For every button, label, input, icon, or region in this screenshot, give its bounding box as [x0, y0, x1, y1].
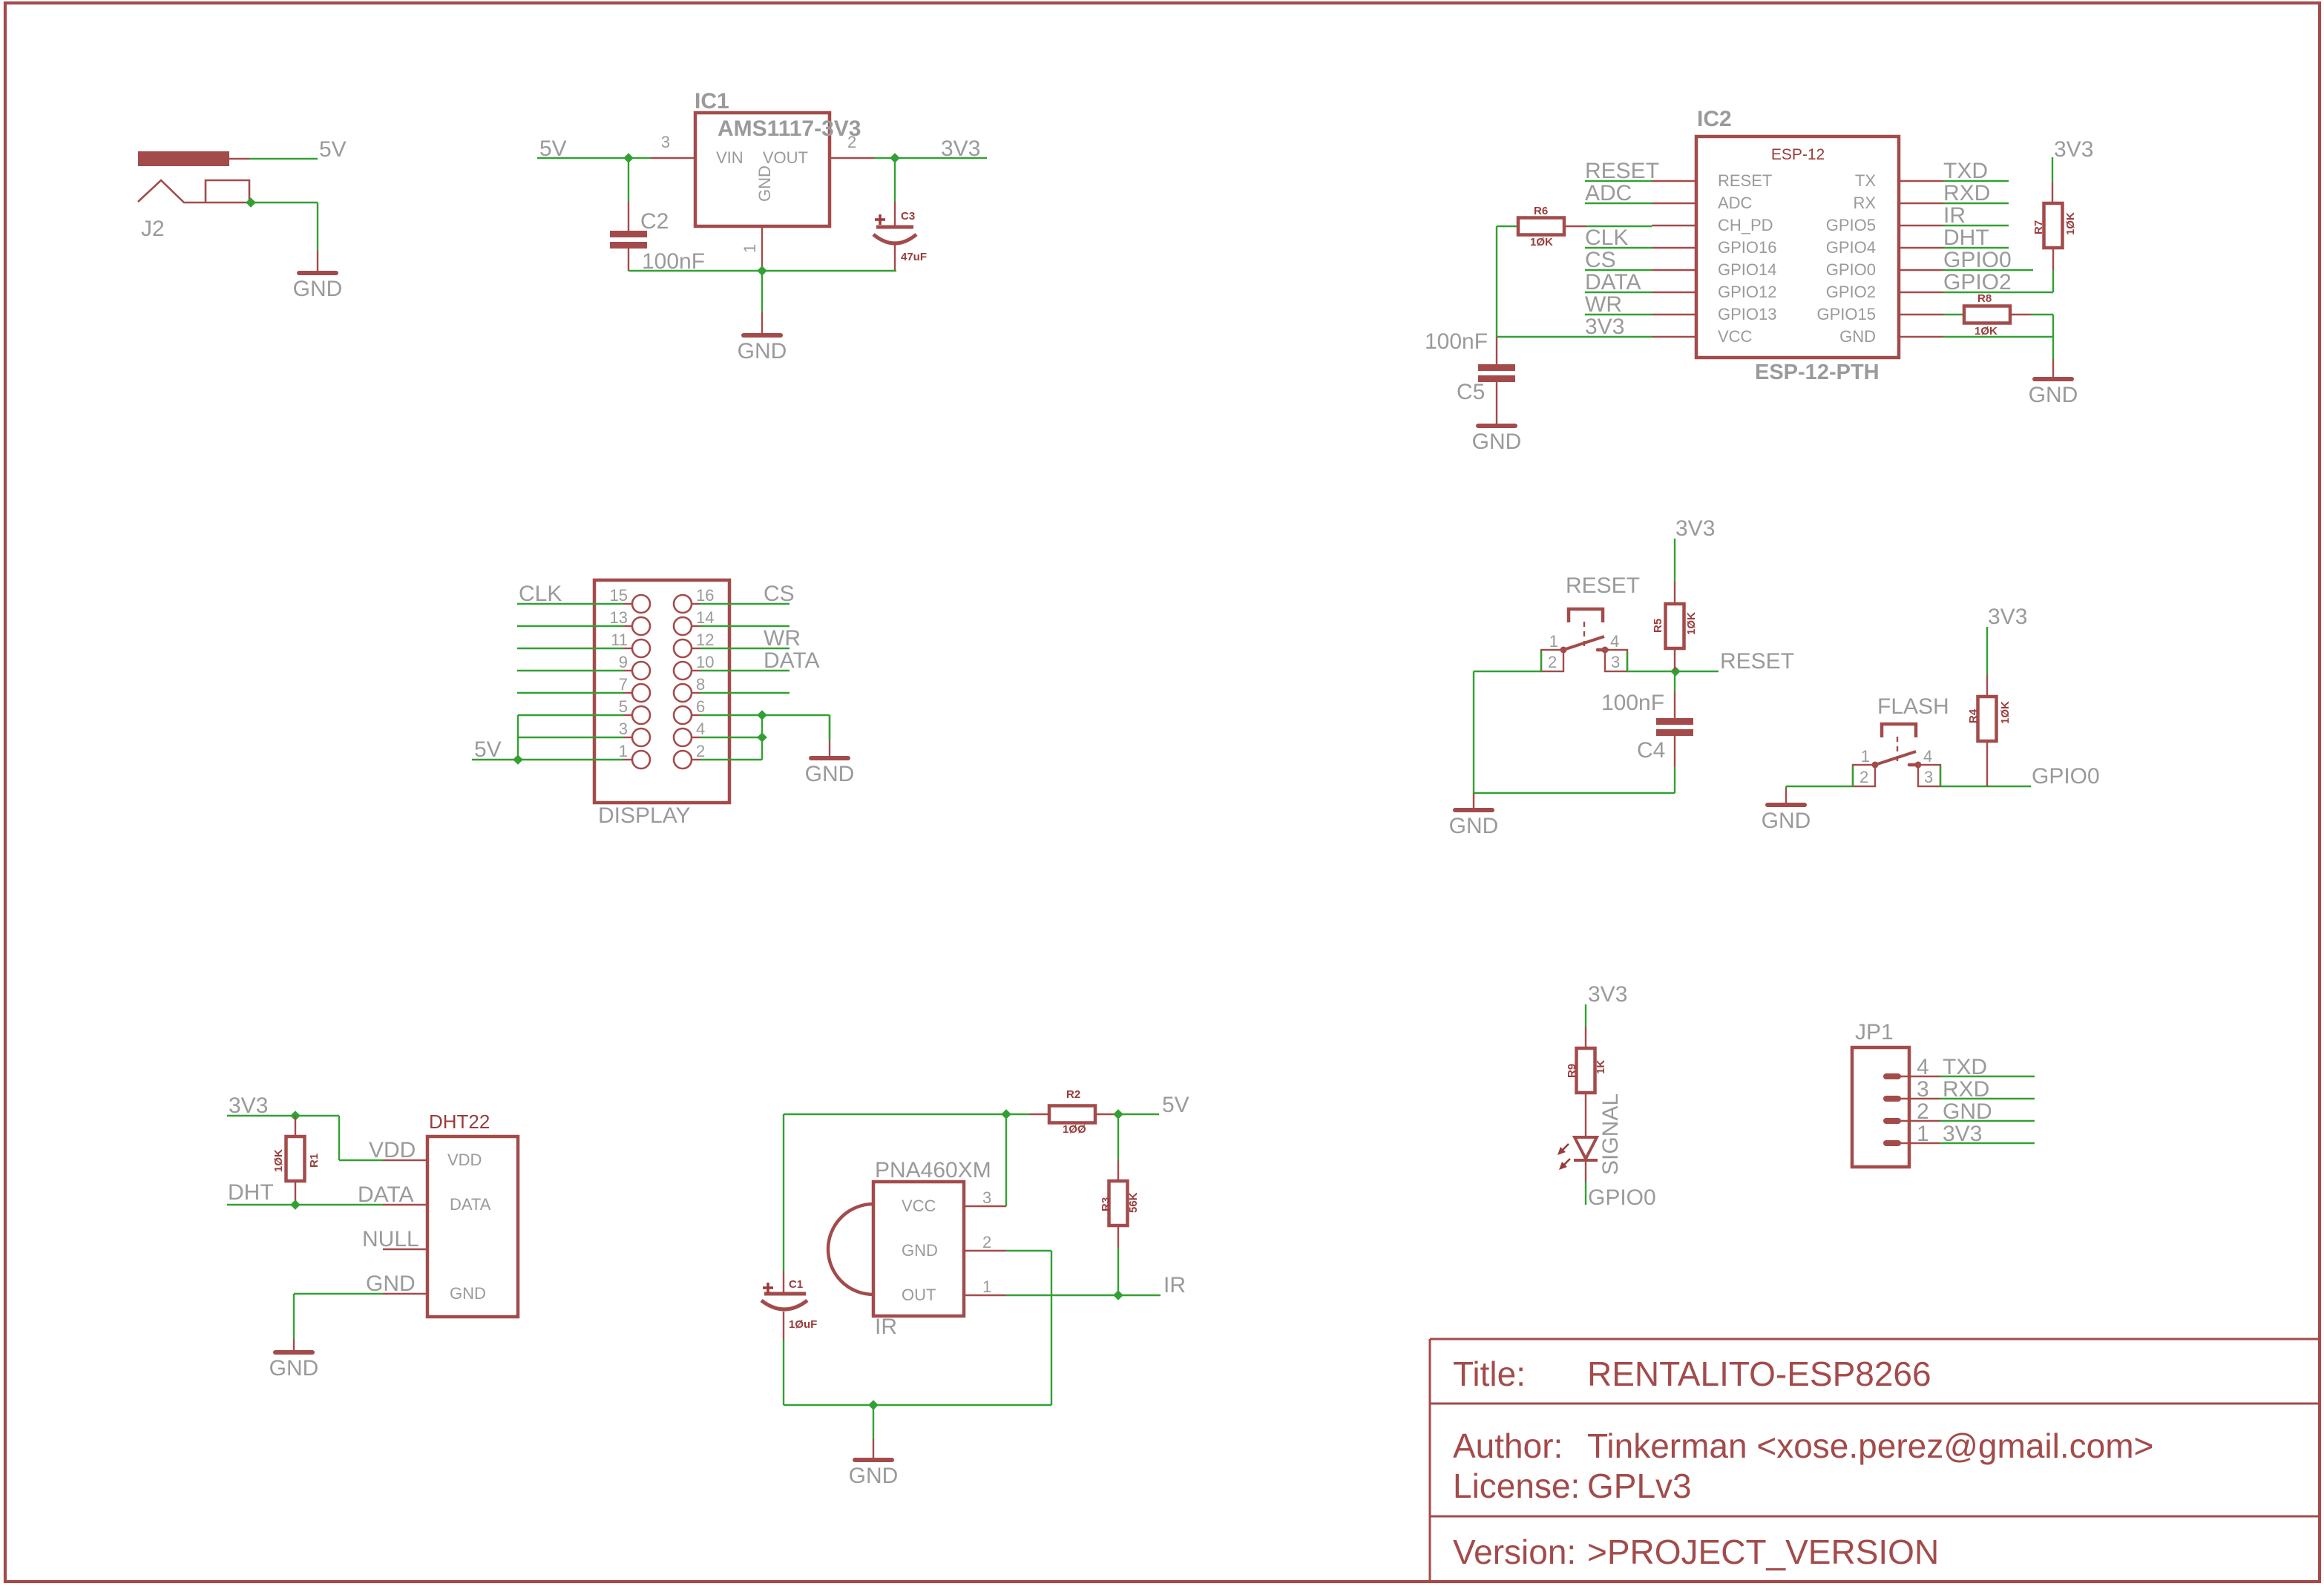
net GPIO0 [1943, 269, 2033, 271]
C4 bottom lead [1674, 736, 1675, 767]
LED emission arrow 1 [1560, 1144, 1569, 1153]
wire DHT22 ground [294, 1293, 383, 1294]
junction 3V3 / C3 [890, 153, 900, 163]
DISPLAY pad 3 [632, 728, 650, 746]
svg-text:3V3: 3V3 [1585, 315, 1624, 339]
svg-text:GPIO12: GPIO12 [1718, 283, 1776, 301]
svg-text:GND: GND [755, 165, 774, 202]
svg-text:GND: GND [1943, 1099, 1992, 1124]
svg-text:GPIO0: GPIO0 [2032, 764, 2100, 789]
resistor R3 [1117, 1114, 1119, 1159]
connector DISPLAY body [594, 580, 729, 803]
wire DHT data [227, 1204, 383, 1205]
svg-text:GPIO16: GPIO16 [1718, 238, 1776, 257]
svg-text:2: 2 [1859, 768, 1868, 786]
svg-text:TXD: TXD [1943, 159, 1988, 183]
DISPLAY pad 5 [632, 706, 650, 724]
svg-text:C1: C1 [789, 1278, 803, 1291]
svg-text:GND: GND [805, 762, 855, 786]
svg-text:RX: RX [1853, 194, 1876, 212]
IC1 pin 1 GND stub [761, 226, 763, 271]
C1 bottom lead [783, 1312, 784, 1340]
IC2 right pin TX [1899, 180, 1943, 182]
svg-text:8: 8 [696, 675, 705, 694]
RESET lever [1563, 636, 1604, 650]
wire from DISPLAY pin 12 [692, 648, 700, 649]
junction PNA ground [868, 1400, 879, 1410]
svg-text:OUT: OUT [902, 1286, 936, 1304]
svg-text:NULL: NULL [362, 1227, 419, 1251]
svg-text:9: 9 [619, 653, 628, 671]
svg-text:RESET: RESET [1718, 171, 1772, 190]
svg-text:4: 4 [1610, 632, 1619, 651]
svg-text:10: 10 [696, 653, 714, 671]
IC2 left pin CH_PD [1652, 225, 1696, 226]
svg-text:GND: GND [1472, 430, 1522, 454]
capacitor C4 plates [1656, 718, 1693, 725]
sensor DHT22 body [427, 1136, 518, 1317]
svg-text:16: 16 [696, 586, 714, 605]
wire PNA bottom rail [784, 1404, 1051, 1406]
wire to DISPLAY pin 3 [623, 737, 632, 738]
svg-text:11: 11 [611, 631, 628, 649]
svg-text:RESET: RESET [1566, 573, 1640, 598]
svg-text:4: 4 [696, 720, 705, 738]
net IR [1943, 225, 2009, 226]
svg-text:R2: R2 [1066, 1088, 1080, 1101]
IC2 left pin RESET [1652, 180, 1696, 182]
ground symbol DHT22 [293, 1339, 295, 1352]
svg-text:100nF: 100nF [1601, 691, 1664, 715]
DISPLAY pad 7 [632, 684, 650, 702]
net TXD [1943, 180, 2009, 182]
svg-text:RXD: RXD [1943, 1077, 1989, 1102]
svg-text:DATA: DATA [358, 1182, 414, 1207]
J2 5V pin [229, 158, 249, 159]
svg-text:R9: R9 [1566, 1064, 1578, 1078]
ground symbol RESET [1473, 793, 1474, 810]
svg-text:5: 5 [619, 697, 628, 716]
svg-text:CLK: CLK [519, 582, 562, 606]
RESET terminal box 3 [1605, 650, 1627, 671]
svg-text:>PROJECT_VERSION: >PROJECT_VERSION [1587, 1533, 1939, 1571]
svg-text:CS: CS [1585, 248, 1616, 272]
DISPLAY pad 6 [674, 706, 692, 724]
svg-text:VOUT: VOUT [763, 148, 808, 167]
IC2 left pin GPIO16 [1652, 247, 1696, 249]
wire PNA gnd down [1006, 1250, 1051, 1251]
svg-text:GND: GND [902, 1241, 938, 1260]
svg-text:1: 1 [619, 742, 628, 760]
capacitor C3 leads [894, 158, 896, 202]
FLASH contact 4 [1915, 762, 1922, 769]
wire to DISPLAY pin 13 [623, 625, 632, 627]
junction RESET net [1670, 666, 1681, 677]
JP1 pad 4 [1883, 1073, 1901, 1079]
svg-text:GND: GND [1839, 327, 1876, 346]
svg-text:RXD: RXD [1943, 181, 1990, 205]
IC2 right pin GPIO2 [1899, 292, 1943, 293]
RESET terminal box 2 [1541, 650, 1563, 671]
svg-text:GPIO0: GPIO0 [1943, 248, 2012, 272]
wire 3V3 to VDD [338, 1116, 340, 1160]
svg-text:CS: CS [764, 582, 795, 606]
svg-text:ESP-12-PTH: ESP-12-PTH [1755, 361, 1880, 384]
resistor R9 [1585, 1027, 1586, 1048]
wire 5V from J2 [249, 158, 318, 159]
svg-text:C3: C3 [901, 210, 915, 223]
resistor R1 pull-up [295, 1116, 296, 1136]
wire from DISPLAY pin 14 [692, 625, 700, 627]
svg-text:AMS1117-3V3: AMS1117-3V3 [718, 116, 861, 141]
net RXD at JP1 [1940, 1098, 2035, 1099]
IR receiver dome [828, 1204, 873, 1294]
wire to DISPLAY pin 11 [623, 648, 632, 649]
net GPIO2 [1943, 292, 2053, 293]
svg-text:3V3: 3V3 [1988, 605, 2027, 629]
svg-text:VDD: VDD [369, 1138, 416, 1162]
svg-text:GND: GND [849, 1464, 899, 1488]
svg-text:1ØuF: 1ØuF [789, 1318, 817, 1331]
svg-text:DATA: DATA [764, 648, 820, 673]
IC2 left pin GPIO12 [1652, 292, 1696, 293]
net GND at JP1 [1940, 1120, 2035, 1122]
LED emission arrow 2 [1561, 1159, 1570, 1168]
svg-text:GND: GND [2029, 383, 2078, 407]
svg-text:DATA: DATA [450, 1195, 491, 1214]
DISPLAY pad 9 [632, 662, 650, 680]
capacitor C1 polarized plates [764, 1292, 806, 1296]
IR receiver body [873, 1182, 964, 1316]
DHT22 pin NULL [383, 1248, 427, 1250]
DHT22 pin VDD [383, 1159, 427, 1161]
regulator IC1 body [695, 113, 830, 226]
LED bottom lead [1585, 1160, 1586, 1182]
wire from DISPLAY pin 16 [692, 603, 700, 605]
svg-text:3V3: 3V3 [1943, 1122, 1982, 1146]
svg-text:1ØK: 1ØK [1999, 701, 2012, 724]
svg-text:C2: C2 [640, 209, 669, 234]
svg-text:1ØK: 1ØK [1530, 236, 1553, 249]
svg-text:Author:: Author: [1453, 1427, 1563, 1465]
FLASH terminal box 3 [1918, 765, 1940, 786]
svg-text:C5: C5 [1457, 380, 1485, 404]
IC1 pin 2 VOUT stub [830, 157, 874, 159]
ground symbol FLASH [1785, 786, 1787, 788]
svg-text:WR: WR [1585, 292, 1622, 317]
svg-text:1ØØ: 1ØØ [1063, 1123, 1086, 1136]
svg-text:1: 1 [1861, 747, 1870, 766]
svg-text:Version:: Version: [1453, 1533, 1576, 1571]
wire GPIO15 pulldown [2052, 315, 2054, 359]
IC2 left pin VCC [1652, 336, 1696, 338]
header JP1 body [1852, 1047, 1909, 1167]
svg-text:Title:: Title: [1453, 1355, 1526, 1393]
svg-text:DHT: DHT [1943, 226, 1989, 250]
capacitor C5 plates [1478, 364, 1515, 371]
svg-text:RENTALITO-ESP8266: RENTALITO-ESP8266 [1587, 1355, 1931, 1393]
FLASH contact 1 [1872, 762, 1879, 769]
svg-text:DHT22: DHT22 [429, 1111, 490, 1133]
svg-text:GPIO2: GPIO2 [1943, 270, 2012, 295]
svg-text:J2: J2 [141, 217, 165, 241]
junction 5V DISPLAY [513, 754, 523, 765]
svg-text:R8: R8 [1977, 292, 1992, 305]
capacitor C3 polarized plates [876, 226, 913, 229]
C1 plus sign [763, 1286, 773, 1289]
C3 bottom lead [894, 245, 896, 271]
junction DISPLAY gnd 4 [757, 732, 767, 743]
svg-text:GPIO0: GPIO0 [1588, 1185, 1656, 1210]
junction VCC rail [1001, 1109, 1011, 1119]
connector J2 power jack body [139, 152, 229, 165]
wire to DISPLAY pin 1 [623, 759, 632, 760]
C3 plus sign [875, 218, 885, 221]
svg-text:R5: R5 [1652, 619, 1664, 633]
svg-text:4: 4 [1917, 1055, 1929, 1079]
junction DHT / R1 [290, 1200, 301, 1210]
ground symbol below J2 [317, 249, 318, 251]
svg-text:5V: 5V [474, 737, 502, 762]
IC2 right pin RX [1899, 203, 1943, 204]
svg-text:GND: GND [450, 1284, 486, 1303]
net 3V3 at JP1 [1940, 1142, 2035, 1144]
wire to DISPLAY pin 7 [623, 692, 632, 694]
junction 5V / C2 [623, 153, 634, 163]
svg-text:1: 1 [1549, 632, 1558, 651]
svg-text:Tinkerman <xose.perez@gmail.co: Tinkerman <xose.perez@gmail.com> [1587, 1427, 2153, 1465]
svg-text:56K: 56K [1127, 1192, 1140, 1213]
DISPLAY pad 11 [632, 639, 650, 657]
wire from DISPLAY pin 8 [692, 692, 700, 694]
svg-text:TXD: TXD [1943, 1055, 1987, 1079]
DISPLAY pad 16 [674, 595, 692, 613]
net TXD at JP1 [1940, 1076, 2035, 1077]
PNA pin GND [964, 1250, 1006, 1251]
svg-text:VDD: VDD [447, 1151, 482, 1169]
wire FLASH left [1786, 786, 1853, 787]
IC2 right pin GPIO0 [1899, 269, 1943, 271]
svg-text:3: 3 [1924, 768, 1933, 786]
LED cathode bar [1574, 1159, 1598, 1162]
IC2 left pin GPIO13 [1652, 314, 1696, 315]
svg-text:12: 12 [696, 631, 714, 649]
wire RESET button right [1627, 671, 1719, 672]
PNA pin OUT [964, 1294, 1006, 1296]
capacitor C4 top lead [1674, 671, 1675, 691]
resistor R6 [1497, 226, 1518, 227]
svg-text:CLK: CLK [1585, 226, 1628, 250]
svg-text:VIN: VIN [716, 148, 744, 167]
svg-text:3V3: 3V3 [229, 1093, 268, 1118]
svg-text:IR: IR [875, 1315, 897, 1339]
svg-text:GPLv3: GPLv3 [1587, 1467, 1692, 1505]
svg-text:JP1: JP1 [1855, 1020, 1894, 1044]
svg-text:1ØK: 1ØK [1975, 325, 1998, 338]
svg-text:R7: R7 [2032, 220, 2045, 234]
svg-text:1: 1 [982, 1277, 991, 1296]
ground symbol below IC1 [761, 271, 763, 312]
capacitor C1 top lead [783, 1114, 784, 1271]
svg-text:3: 3 [619, 720, 628, 738]
ground symbol DISPLAY [829, 715, 830, 740]
wire VCC riser [1005, 1114, 1007, 1206]
svg-text:1: 1 [1917, 1122, 1929, 1146]
svg-text:GPIO13: GPIO13 [1718, 305, 1776, 323]
svg-text:1ØK: 1ØK [2064, 212, 2077, 235]
svg-text:2: 2 [982, 1233, 991, 1251]
svg-text:R6: R6 [1534, 205, 1548, 217]
DHT22 pin GND [383, 1293, 427, 1294]
DISPLAY pad 10 [674, 662, 692, 680]
svg-text:3V3: 3V3 [1588, 982, 1627, 1007]
resistor R2 [1029, 1113, 1049, 1115]
svg-text:DISPLAY: DISPLAY [598, 803, 691, 828]
svg-text:3: 3 [982, 1188, 991, 1207]
DISPLAY pad 8 [674, 684, 692, 702]
svg-text:ADC: ADC [1718, 194, 1753, 212]
svg-text:IC2: IC2 [1697, 107, 1732, 131]
module IC2 body [1696, 136, 1899, 358]
svg-text:R1: R1 [308, 1154, 321, 1168]
svg-text:GND: GND [293, 277, 343, 301]
svg-text:4: 4 [1923, 747, 1932, 766]
DHT22 pin DATA [383, 1204, 427, 1205]
wire to DISPLAY pin 15 [623, 603, 632, 605]
PNA pin VCC [964, 1205, 1006, 1207]
JP1 pad 1 [1883, 1140, 1901, 1146]
C2 bottom lead [628, 249, 629, 271]
svg-text:FLASH: FLASH [1877, 694, 1949, 719]
svg-text:2: 2 [1548, 653, 1557, 671]
net RXD [1943, 203, 2009, 204]
IC2 left pin GPIO14 [1652, 269, 1696, 271]
ground symbol PNA [873, 1405, 874, 1439]
svg-text:GND: GND [366, 1271, 416, 1296]
svg-text:RESET: RESET [1720, 649, 1794, 674]
svg-text:15: 15 [610, 586, 628, 605]
capacitor C2 leads [628, 158, 629, 202]
svg-text:1ØK: 1ØK [272, 1149, 285, 1172]
wire DISPLAY gnd pins [692, 714, 700, 716]
IC1 pin 3 VIN [651, 157, 695, 159]
svg-text:VCC: VCC [1718, 327, 1753, 346]
DISPLAY pad 13 [632, 617, 650, 635]
LED SIGNAL triangle [1575, 1137, 1597, 1159]
svg-text:ADC: ADC [1585, 181, 1632, 205]
wire RESET ground rail [1473, 671, 1474, 793]
svg-text:GND: GND [269, 1356, 319, 1381]
DISPLAY pad 14 [674, 617, 692, 635]
svg-text:GPIO5: GPIO5 [1826, 216, 1876, 234]
wire 3V3 output [874, 157, 987, 159]
svg-text:GND: GND [1449, 814, 1499, 838]
svg-text:IC1: IC1 [695, 89, 729, 113]
IC2 right pin GPIO4 [1899, 247, 1943, 249]
C5 bottom lead and ground [1496, 382, 1497, 426]
wire CH_PD pull-up rail [1496, 226, 1497, 337]
svg-text:DATA: DATA [1585, 270, 1641, 295]
svg-text:2: 2 [847, 133, 856, 151]
svg-text:2: 2 [696, 742, 705, 760]
junction IC1 GND [757, 266, 767, 276]
JP1 pad 3 [1883, 1096, 1901, 1102]
wire to 5V label [1118, 1113, 1159, 1115]
junction DISPLAY gnd 6 [757, 710, 767, 720]
JP1 pad 2 [1883, 1118, 1901, 1124]
pushbutton FLASH actuator [1882, 724, 1916, 737]
wire to DISPLAY pin 5 [623, 714, 632, 716]
svg-text:6: 6 [696, 697, 705, 716]
svg-text:DHT: DHT [228, 1180, 274, 1205]
RESET contact 4 [1602, 647, 1609, 654]
svg-text:IR: IR [1943, 203, 1966, 228]
capacitor C5 top lead [1496, 337, 1497, 364]
wire 5V bus vertical [517, 715, 519, 760]
junction 5V / R3 [1113, 1109, 1123, 1119]
svg-text:3V3: 3V3 [1675, 516, 1715, 541]
DISPLAY pad 4 [674, 728, 692, 746]
svg-text:5V: 5V [1162, 1093, 1189, 1117]
svg-text:PNA460XM: PNA460XM [875, 1158, 991, 1182]
svg-text:3: 3 [1611, 653, 1620, 671]
svg-text:R4: R4 [1967, 708, 1980, 723]
svg-text:5V: 5V [319, 137, 347, 162]
svg-text:SIGNAL: SIGNAL [1598, 1093, 1623, 1175]
svg-text:3: 3 [661, 133, 670, 151]
FLASH terminal box 2 [1853, 765, 1875, 786]
svg-text:3: 3 [1917, 1077, 1929, 1102]
svg-text:14: 14 [696, 608, 714, 627]
svg-text:WR: WR [764, 626, 801, 651]
svg-text:TX: TX [1855, 171, 1876, 190]
wire RESET button left [1474, 671, 1541, 672]
svg-text:GND: GND [738, 339, 787, 363]
svg-text:VCC: VCC [902, 1197, 936, 1215]
pushbutton RESET actuator [1569, 609, 1603, 622]
IC2 right pin GPIO5 [1899, 225, 1943, 226]
svg-text:License:: License: [1453, 1467, 1580, 1505]
svg-text:7: 7 [619, 675, 628, 694]
svg-text:1: 1 [741, 244, 759, 253]
svg-text:3V3: 3V3 [941, 136, 980, 161]
svg-text:13: 13 [610, 608, 628, 627]
svg-text:R3: R3 [1100, 1197, 1112, 1211]
wire IC2 GND [1943, 336, 2053, 338]
DISPLAY pad 12 [674, 639, 692, 657]
svg-text:GPIO14: GPIO14 [1718, 260, 1776, 279]
svg-text:IR: IR [1163, 1273, 1186, 1297]
capacitor C2 plates [610, 231, 647, 237]
wire IC1 ground rail [628, 270, 896, 272]
junction IR / R3 [1113, 1290, 1123, 1300]
net DHT [1943, 247, 2009, 249]
svg-text:3V3: 3V3 [2054, 137, 2093, 162]
DISPLAY pad 2 [674, 751, 692, 769]
svg-text:GND: GND [1762, 809, 1811, 833]
wire FLASH right [1940, 786, 2031, 787]
wire from DISPLAY pin 10 [692, 670, 700, 671]
wire DISPLAY gnd bus [761, 715, 763, 760]
junction 3V3 / R1 [290, 1111, 301, 1121]
IC2 left pin ADC [1652, 203, 1696, 204]
title block outline [1430, 1338, 2320, 1340]
svg-text:GPIO4: GPIO4 [1826, 238, 1876, 257]
ground symbol IC2 [2052, 359, 2054, 379]
svg-text:47uF: 47uF [901, 251, 927, 263]
svg-text:100nF: 100nF [1425, 329, 1488, 354]
svg-text:GPIO2: GPIO2 [1826, 283, 1876, 301]
